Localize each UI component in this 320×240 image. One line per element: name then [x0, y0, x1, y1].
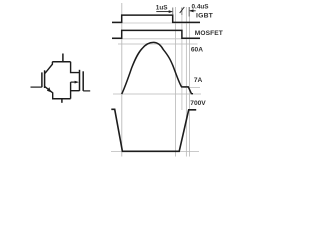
MOSFET gate zero reference line: [112, 38, 200, 40]
0.4uS dimension arrow: [190, 10, 196, 12]
1uS dimension extension line: [172, 8, 174, 16]
MOSFET Q2 body arrow: [71, 81, 75, 83]
IGBT Q1 body bar: [44, 70, 46, 88]
MOSFET Q2 gate lead: [83, 90, 90, 92]
svg-text:MOSFET: MOSFET: [195, 30, 223, 37]
60A reference line: [118, 43, 198, 45]
zero voltage reference line: [111, 150, 199, 152]
current waveform 60A bell with 7A tail: [122, 42, 193, 94]
IGBT gate zero reference line: [112, 22, 200, 24]
IGBT Q1 gate lead: [31, 86, 42, 88]
svg-text:0.4uS: 0.4uS: [192, 4, 210, 11]
1uS dimension arrow: [156, 11, 171, 13]
IGBT gate drive pulse: [112, 15, 200, 22]
zero current reference line: [113, 93, 201, 95]
MOSFET Q2 gate bar: [82, 71, 84, 91]
top rail wire: [52, 61, 70, 63]
voltage waveform 700V trapezoid: [111, 109, 196, 151]
svg-text:IGBT: IGBT: [196, 13, 214, 20]
node T: time axis origin gridline: [121, 3, 123, 157]
MOSFET Q2 source lead: [70, 82, 72, 99]
bottom rail wire: [52, 98, 71, 100]
0.4uS dimension extension line: [188, 7, 190, 17]
svg-text:60A: 60A: [191, 47, 203, 54]
node t1 gridline: [175, 7, 177, 157]
svg-text:1uS: 1uS: [156, 5, 168, 12]
top supply stub: [62, 54, 64, 63]
MOSFET Q2 drain lead: [71, 62, 80, 73]
IGBT Q1 emitter lead with arrow: [45, 87, 53, 99]
7A reference line: [181, 87, 200, 89]
MOSFET Q2 channel bar: [79, 70, 81, 91]
break slash: [180, 7, 185, 13]
IGBT Q1 gate bar: [41, 72, 43, 87]
MOSFET gate drive pulse: [112, 30, 200, 38]
node t2 gridline: [181, 15, 183, 110]
svg-text:700V: 700V: [190, 100, 206, 107]
dimension break extension at MOSFET fall: [181, 8, 183, 16]
node t3 gridline: [185, 7, 187, 157]
svg-text:7A: 7A: [194, 77, 203, 84]
bottom terminal stub: [61, 99, 63, 103]
IGBT Q1 collector lead: [45, 62, 52, 74]
node t4 gridline: [189, 7, 191, 157]
